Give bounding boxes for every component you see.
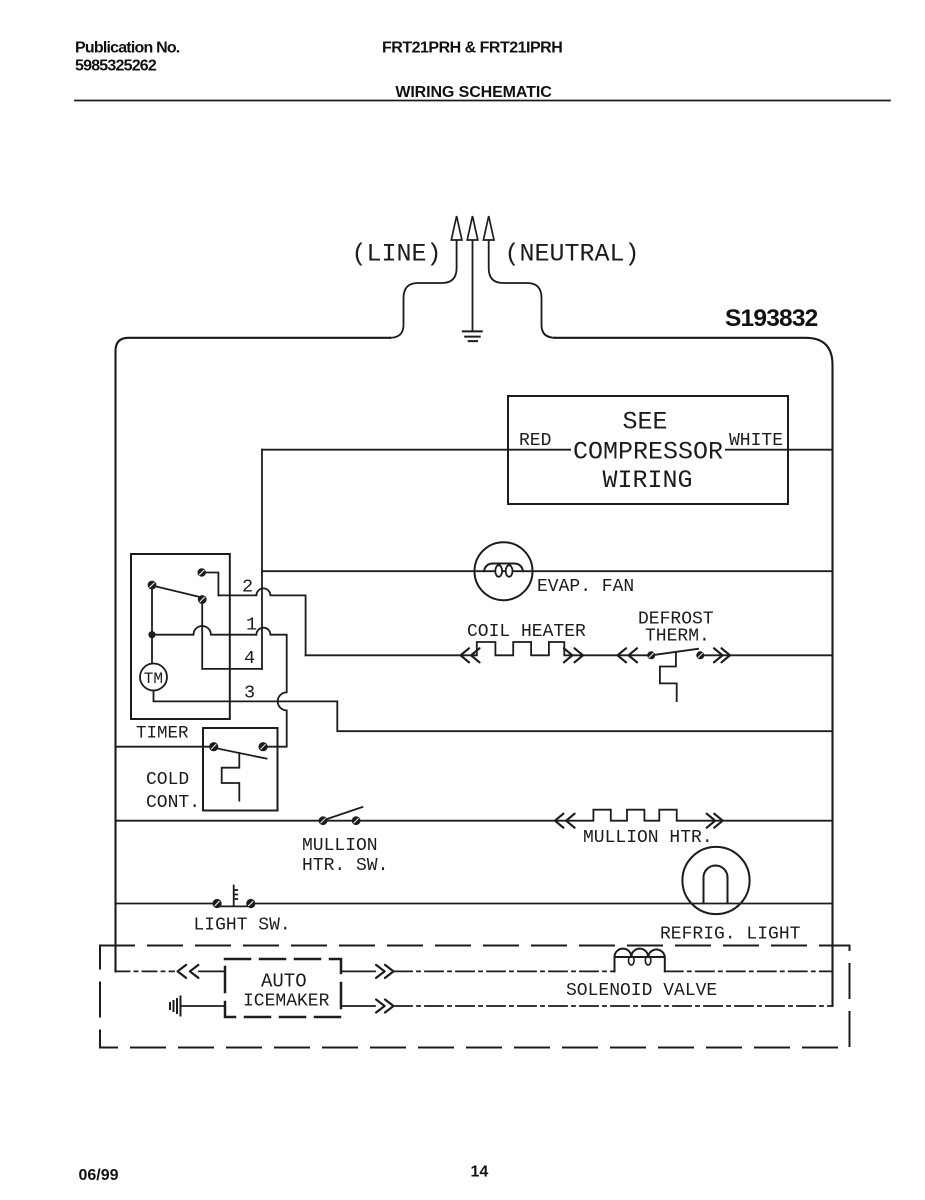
svg-text:2: 2 [242, 577, 253, 598]
svg-text:MULLION: MULLION [302, 836, 378, 856]
svg-text:AUTO: AUTO [261, 971, 307, 993]
svg-text:S193832: S193832 [725, 305, 818, 332]
svg-text:RED: RED [519, 431, 551, 451]
svg-text:WIRING SCHEMATIC: WIRING SCHEMATIC [395, 84, 552, 101]
svg-text:COMPRESSOR: COMPRESSOR [573, 438, 723, 467]
svg-text:Publication No.: Publication No. [75, 40, 180, 57]
svg-text:REFRIG. LIGHT: REFRIG. LIGHT [660, 925, 801, 945]
svg-text:06/99: 06/99 [79, 1167, 119, 1184]
svg-text:FRT21PRH & FRT21IPRH: FRT21PRH & FRT21IPRH [382, 40, 562, 57]
svg-text:COLD: COLD [146, 770, 189, 790]
svg-text:(NEUTRAL): (NEUTRAL) [505, 240, 640, 269]
svg-text:SOLENOID VALVE: SOLENOID VALVE [566, 981, 717, 1001]
svg-text:HTR. SW.: HTR. SW. [302, 856, 388, 876]
svg-text:14: 14 [471, 1164, 489, 1181]
svg-text:TIMER: TIMER [136, 723, 189, 743]
svg-text:EVAP. FAN: EVAP. FAN [537, 577, 634, 597]
svg-text:THERM.: THERM. [645, 627, 710, 647]
svg-text:(LINE): (LINE) [352, 240, 442, 269]
svg-text:SEE: SEE [622, 408, 667, 437]
svg-text:LIGHT SW.: LIGHT SW. [194, 916, 291, 936]
svg-text:CONT.: CONT. [146, 793, 200, 813]
svg-text:4: 4 [244, 648, 255, 669]
svg-text:3: 3 [244, 682, 255, 703]
svg-text:TM: TM [144, 670, 163, 688]
svg-text:WHITE: WHITE [729, 431, 783, 451]
svg-text:ICEMAKER: ICEMAKER [243, 992, 330, 1012]
svg-text:COIL HEATER: COIL HEATER [467, 622, 586, 642]
svg-text:1: 1 [246, 614, 257, 635]
svg-text:5985325262: 5985325262 [75, 58, 157, 75]
svg-text:WIRING: WIRING [602, 466, 692, 495]
svg-text:MULLION HTR.: MULLION HTR. [583, 828, 713, 848]
